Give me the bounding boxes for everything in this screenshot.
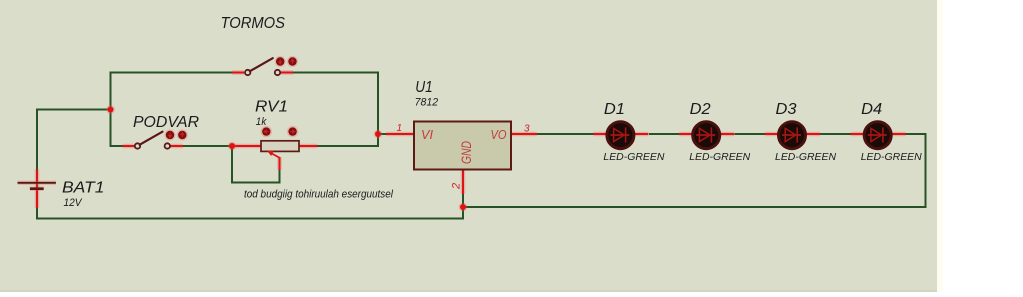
wire wiper loop left vertical (231, 146, 233, 184)
RV1 increase button (287, 126, 299, 138)
wire ground return horizontal (463, 206, 927, 208)
svg-text:VI: VI (421, 127, 433, 142)
RV1 decrease button (261, 126, 273, 138)
svg-text:RV1: RV1 (255, 99, 288, 116)
LED D3 (765, 122, 820, 149)
wire pin2 to node D (462, 194, 464, 207)
switch TORMOS lever (250, 58, 273, 71)
svg-text:U1: U1 (415, 79, 433, 96)
svg-text:VO: VO (491, 127, 507, 142)
wire battery top vertical (36, 110, 38, 171)
wire TORMOS branch horizontal (111, 72, 233, 74)
battery positive pin (red) (35, 169, 40, 208)
wire D4 to right edge (906, 133, 927, 135)
LED D4 (851, 122, 906, 149)
wire top-left horizontal to node A (36, 109, 111, 111)
wire PODVAR branch from node A (111, 145, 123, 147)
wire D3-D4 (820, 133, 851, 135)
wire node B to U1 pin1 (378, 133, 386, 135)
svg-text:2: 2 (451, 183, 463, 190)
svg-text:LED-GREEN: LED-GREEN (775, 151, 836, 163)
wire red stub left of TORMOS switch (232, 70, 244, 75)
svg-text:GND: GND (458, 141, 474, 164)
wire D2-D3 (735, 133, 766, 135)
node D junction dot (459, 203, 468, 212)
switch TORMOS left contact (245, 70, 250, 75)
svg-text:D1: D1 (604, 101, 625, 118)
battery BAT1 (18, 183, 56, 189)
node B junction dot (374, 130, 383, 139)
svg-text:PODVAR: PODVAR (133, 114, 199, 131)
potentiometer RV1 wiper arrow (267, 150, 280, 158)
svg-text:D2: D2 (690, 101, 711, 118)
switch PODVAR right contact (165, 143, 170, 148)
wire D1-D2 (649, 133, 680, 135)
svg-text:1: 1 (397, 123, 403, 134)
wire node A down to PODVAR branch (110, 110, 112, 148)
svg-text:BAT1: BAT1 (62, 180, 105, 197)
wire riser up to node B (377, 134, 379, 147)
svg-text:7812: 7812 (415, 97, 439, 109)
wire node D down (462, 207, 464, 219)
node A junction dot (106, 105, 115, 114)
svg-text:LED-GREEN: LED-GREEN (689, 151, 750, 163)
pin 1 of U1 (red) (386, 132, 414, 137)
pot wiper pin red vertical (277, 157, 282, 170)
switch TORMOS right contact (275, 70, 280, 75)
wire red stub right of PODVAR switch (171, 144, 184, 149)
node C junction dot (228, 142, 237, 151)
wire U1 output to D1 (537, 133, 595, 135)
switch TORMOS toggle button up (287, 56, 298, 67)
switch PODVAR left contact (135, 143, 140, 148)
svg-text:TORMOS: TORMOS (221, 15, 286, 32)
wire node A up to TORMOS branch (110, 72, 112, 111)
wire red stub left of PODVAR switch (123, 144, 135, 149)
wire red stub right of TORMOS switch (281, 70, 293, 75)
wire bottom return to battery (36, 218, 464, 220)
wire right edge vertical (925, 133, 927, 207)
svg-text:1k: 1k (256, 116, 267, 128)
wire pot pin2 red (299, 144, 318, 149)
pale edge strip right of sheet (937, 0, 943, 292)
wire battery bottom vertical (36, 208, 38, 220)
switch TORMOS toggle button down (275, 56, 286, 67)
pin 2 of U1 (red) (461, 169, 466, 194)
switch PODVAR toggle button down (164, 129, 175, 140)
svg-text:tod budgiig tohiruulah eserguu: tod budgiig tohiruulah eserguutsel (244, 189, 393, 201)
wire wiper down (279, 170, 281, 184)
svg-text:D3: D3 (776, 101, 797, 118)
wire pot pin1 red (232, 144, 262, 149)
regulator U1 body (414, 122, 511, 170)
wire pot to riser (318, 145, 379, 147)
wire down to node B (377, 72, 379, 135)
wire wiper loop bottom (231, 182, 281, 184)
svg-text:D4: D4 (861, 101, 882, 118)
svg-text:LED-GREEN: LED-GREEN (861, 151, 922, 163)
switch PODVAR toggle button up (177, 129, 188, 140)
LED D1 (593, 122, 648, 149)
bottom sheet shading (0, 290, 937, 292)
switch PODVAR lever (140, 132, 163, 145)
svg-text:12V: 12V (64, 197, 84, 209)
svg-text:LED-GREEN: LED-GREEN (603, 151, 664, 163)
potentiometer RV1 body (261, 141, 299, 152)
wire TORMOS to right corner (293, 72, 378, 74)
svg-text:3: 3 (524, 124, 530, 135)
pin 3 of U1 (red) (511, 132, 537, 137)
LED D2 (679, 122, 734, 149)
wire PODVAR to node C (183, 145, 232, 147)
